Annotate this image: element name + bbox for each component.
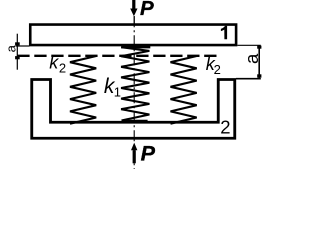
spring k1 top bar [121, 46, 150, 48]
dimension a right: top extension line [238, 44, 261, 46]
dimension a right: top tick [257, 46, 261, 49]
svg-text:a: a [241, 53, 262, 64]
svg-text:2: 2 [220, 116, 230, 137]
spring k2 left [70, 56, 96, 124]
dimension a left: top tick [15, 42, 20, 45]
spring k1 bottom bar [123, 120, 148, 122]
svg-text:1: 1 [114, 84, 121, 99]
frame 2 (U-channel support) [32, 80, 235, 139]
svg-text:k: k [49, 53, 59, 73]
svg-text:a: a [4, 44, 19, 52]
force arrow P top: shaft [132, 0, 135, 9]
dimension a right: bottom extension line [236, 78, 261, 80]
dimension a left: extension line [16, 45, 30, 47]
force arrow P top: head [130, 9, 137, 17]
centerline (vertical dash-dot axis) [133, 16, 135, 169]
force arrow P bottom: head [131, 143, 137, 151]
dimension a right: dimension line [258, 45, 260, 78]
dimension a left: dimension line [16, 34, 18, 70]
gap line (dashed level of springs k2 tops) [17, 55, 216, 57]
svg-text:2: 2 [214, 62, 221, 77]
svg-text:2: 2 [59, 61, 66, 76]
plate 1 (top plate) [30, 25, 236, 46]
dimension a left: bottom tick [15, 56, 20, 59]
label 1 [221, 26, 227, 40]
spring k1 [121, 47, 149, 120]
svg-text:P: P [140, 0, 154, 20]
dimension a right: bottom tick [257, 74, 261, 77]
force arrow P top: tip line [133, 16, 135, 24]
force arrow P bottom: shaft [133, 150, 136, 163]
spring k2 right [171, 56, 197, 124]
svg-text:P: P [141, 141, 156, 165]
